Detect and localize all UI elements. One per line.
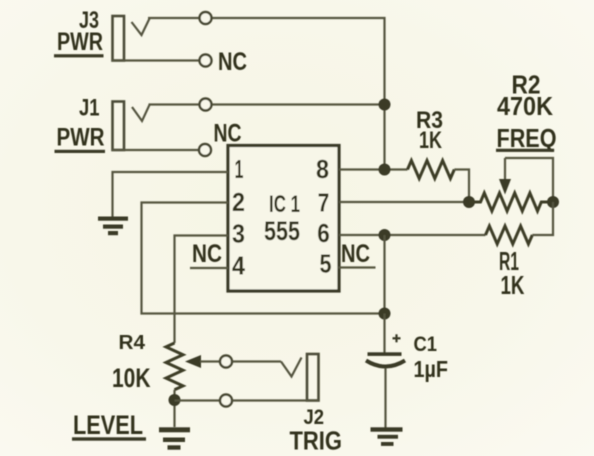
potentiometer R2 [469,193,553,211]
svg-text:NC: NC [341,240,370,268]
resistor R1 [486,226,533,244]
jack J2 body [307,354,319,401]
wire: J2 sleeve lug to J2 body [233,399,319,401]
svg-text:PWR: PWR [57,124,105,152]
jack J3 body [113,16,125,61]
potentiometer R4 [166,343,183,390]
svg-text:1: 1 [235,154,244,184]
terminal circle J2 sleeve [220,395,232,407]
wire: R4 bottom to J2 sleeve lug [175,399,220,401]
wire: pin 6 to R1 [339,234,486,236]
op-amp/timer IC1 box [228,146,339,292]
svg-text:C1: C1 [414,332,438,356]
R2 wiper stem [504,158,506,181]
svg-text:1K: 1K [419,127,442,154]
R2 wiper arm to right terminal [505,158,553,202]
wire: pin 8 to R3 [339,168,408,170]
wire: pin 3 down to R4 [175,236,229,344]
svg-text:470K: 470K [497,91,553,121]
svg-text:7: 7 [318,188,330,218]
ground (pin 1) [98,217,128,236]
jack J1 tip contact [132,105,150,121]
svg-text:6: 6 [317,218,330,248]
svg-text:8: 8 [316,154,329,184]
svg-text:NC: NC [192,240,222,268]
capacitor C1 plus sign [393,334,401,342]
jack J2 tip contact [281,358,302,377]
wire: J2 tip lug to J2 contact [233,360,282,362]
wire: pin 5 NC stub [338,266,376,268]
R2 wiper arrowhead [499,179,511,195]
terminal circle J1 tip [200,99,212,111]
wire: R4 bottom to ground [173,390,175,427]
wire: pin 2 down and along bottom to node C [142,203,385,314]
svg-text:1K: 1K [501,270,525,300]
svg-text:FREQ: FREQ [497,123,557,153]
svg-text:10K: 10K [112,363,151,393]
node B: pot left terminal [463,196,475,208]
jack J1 body [113,102,125,151]
svg-text:2: 2 [232,187,245,217]
label PWR (J1) [55,124,106,154]
node: J1 tip junction on node A [379,99,391,111]
terminal circle J3 NC [200,55,212,67]
label FREQ [496,123,557,153]
wire: J3 sleeve to NC lug [112,59,200,61]
wire: node pin6 down to node C [383,235,385,314]
wire: pin 7 to node B [339,201,469,203]
svg-text:R4: R4 [119,332,146,354]
node D: pot right terminal [547,196,559,208]
wire: pin 4 NC stub [190,267,228,269]
jack J3 tip contact [132,19,150,36]
svg-text:PWR: PWR [57,28,103,56]
label PWR (J3) [54,28,104,57]
wire: pin 1 to ground [113,172,229,217]
capacitor C1 [366,352,405,366]
node: R4 bottom junction [169,394,181,406]
wire: R3 to node B [454,170,469,203]
ground (R4 / LEVEL) [159,427,190,449]
svg-text:TRIG: TRIG [290,426,343,456]
svg-text:1µF: 1µF [414,356,449,382]
svg-text:LEVEL: LEVEL [73,410,143,440]
wire: R4 wiper to J2 tip lug [200,360,220,362]
svg-text:5: 5 [320,249,332,279]
terminal circle J1 NC [199,144,211,156]
resistor R3 [408,161,455,179]
svg-text:555: 555 [264,216,300,246]
svg-text:NC: NC [214,120,242,148]
node C: bottom junction [379,308,391,320]
node: pin 6 junction on node C branch [379,229,391,241]
label LEVEL [72,410,146,441]
node: pin 8 / VCC junction [379,164,391,176]
wire: R1 to node D [532,202,553,235]
svg-text:NC: NC [218,48,247,76]
wire: J1 sleeve to NC lug [112,149,199,151]
terminal circle J3 tip [200,12,212,24]
svg-text:4: 4 [232,251,245,281]
svg-text:IC 1: IC 1 [269,191,300,218]
ground (C1) [371,427,403,446]
svg-text:3: 3 [232,219,245,249]
terminal circle J2 tip [220,356,232,368]
wire: C1 to ground [384,368,386,428]
wire: J1 tip to node A [149,103,384,105]
wire: node C to C1 [383,314,385,353]
wire: J3 tip to node A top [148,18,385,170]
R4 wiper arrowhead [185,355,201,368]
svg-text:J1: J1 [79,95,100,122]
